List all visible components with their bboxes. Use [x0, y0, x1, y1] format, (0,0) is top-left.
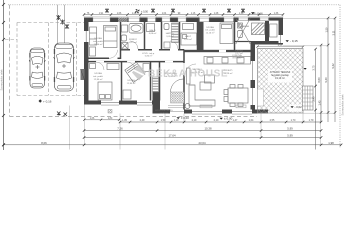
vent mark below window A [108, 110, 112, 114]
entry door arc [171, 79, 184, 92]
room1 bottom wall [89, 57, 110, 59]
exterior wall right of bump-out [279, 18, 284, 45]
svg-text:SZOBA: SZOBA [94, 72, 102, 75]
right extension horizontals [283, 18, 335, 113]
terrace door pad [258, 89, 264, 106]
left property dimension line [3, 0, 5, 150]
svg-text:1,50: 1,50 [325, 27, 329, 33]
living room right wall [251, 44, 256, 114]
entry door gap in bottom wall [168, 106, 186, 114]
svg-text:2,55: 2,55 [270, 119, 275, 122]
windows bottom wall right section [192, 110, 252, 114]
svg-text:tett. padló: tett. padló [205, 29, 215, 32]
svg-text:2,10: 2,10 [214, 119, 219, 122]
svg-text:4,66 m²: 4,66 m² [149, 32, 157, 35]
svg-text:1,05: 1,05 [122, 119, 127, 122]
svg-text:9,40: 9,40 [324, 77, 328, 83]
svg-text:1,79: 1,79 [309, 119, 314, 122]
door gaps in corridor walls [96, 49, 185, 75]
svg-text:1,36: 1,36 [274, 13, 279, 15]
bath washer [122, 43, 129, 50]
exterior wall left [84, 18, 89, 105]
terrace garden steps [303, 86, 314, 110]
svg-text:12,85 m²: 12,85 m² [94, 78, 103, 81]
radiators living [200, 105, 246, 108]
dim line B [84, 130, 321, 132]
svg-text:10,38: 10,38 [205, 127, 212, 131]
bedroom A bed vertical [98, 82, 112, 100]
wc room fixtures [164, 24, 169, 30]
bath tub [129, 24, 143, 34]
bath/haló wall [144, 22, 146, 49]
haló/wc wall [161, 22, 163, 49]
svg-text:1,47: 1,47 [233, 119, 238, 122]
svg-text:2,19: 2,19 [192, 119, 197, 122]
bedroom B desk [123, 90, 131, 99]
terrace label [268, 70, 292, 83]
living top wall band [184, 50, 251, 52]
svg-text:ÉTKEZŐ: ÉTKEZŐ [233, 57, 242, 60]
shrub marks above top wall [105, 8, 245, 13]
svg-text:1,28: 1,28 [132, 13, 137, 15]
svg-text:8,06: 8,06 [41, 141, 47, 145]
+0.16 level marker in yard [39, 99, 52, 103]
corridor bottom wall [89, 61, 185, 63]
svg-text:rendszer: rendszer [160, 111, 169, 114]
svg-text:± 0,00: ± 0,00 [224, 117, 233, 121]
entry connector wall [153, 92, 161, 114]
exterior wall top [84, 18, 283, 23]
door swing arcs [96, 41, 196, 75]
bottom wall left section [84, 101, 157, 105]
svg-text:- 0,02: - 0,02 [295, 105, 303, 109]
eaves line above top wall [84, 16, 283, 18]
svg-text:3,05 m²: 3,05 m² [166, 35, 174, 38]
terrace top dim line [258, 46, 304, 48]
svg-text:1,66: 1,66 [90, 118, 95, 120]
svg-text:tett. padló: tett. padló [93, 40, 103, 43]
svg-text:KÖZL. tett.p.: KÖZL. tett.p. [142, 52, 155, 55]
dark shaft attic room [198, 22, 204, 50]
svg-text:1,70: 1,70 [291, 119, 296, 122]
room1 wardrobe [90, 27, 97, 45]
svg-text:3,73: 3,73 [312, 65, 316, 71]
ladder closet room3 [172, 23, 179, 43]
car 2 top view [54, 43, 75, 91]
kitchen counter [204, 57, 251, 65]
svg-text:2,49: 2,49 [140, 119, 145, 122]
svg-text:7,26: 7,26 [117, 127, 123, 131]
bump-out fixtures [238, 23, 243, 28]
bump-out bottom wall [251, 41, 284, 45]
svg-text:23,64: 23,64 [199, 141, 206, 145]
bump-out interior thick wall [265, 21, 269, 41]
wall room1/bath [120, 22, 122, 59]
svg-text:± 0,00: ± 0,00 [181, 116, 189, 120]
svg-text:6,15 m²: 6,15 m² [129, 41, 137, 44]
svg-text:KAMRA: KAMRA [235, 50, 243, 53]
windows top wall [92, 18, 270, 23]
svg-text:HÁLÓ: HÁLÓ [185, 35, 191, 38]
svg-text:1,98: 1,98 [328, 141, 334, 145]
bedroom divider walls [121, 62, 123, 101]
living: tv bench [187, 68, 191, 84]
terrace doors in living right wall [251, 61, 256, 80]
svg-text:Szomszédos telek: Szomszédos telek [341, 94, 345, 116]
car 1 top view [29, 48, 45, 88]
top room wardrobe [183, 24, 194, 30]
shrubs near bottom dashed line [57, 112, 67, 117]
entry/corridor wall [159, 62, 161, 101]
room/attic-room wall [197, 22, 199, 50]
svg-text:- 0,15: - 0,15 [290, 39, 298, 43]
svg-text:+ 0,16: + 0,16 [43, 100, 52, 104]
bath wc [122, 35, 127, 41]
watermark [132, 65, 228, 81]
attic-room/bump-out wall [234, 22, 236, 50]
svg-text:BÉK&A HOUSE: BÉK&A HOUSE [148, 67, 228, 80]
±0.00 level marker top [135, 9, 148, 13]
svg-text:6,60: 6,60 [317, 77, 321, 83]
svg-text:1,80: 1,80 [108, 118, 113, 120]
svg-text:1,28: 1,28 [214, 13, 219, 15]
windows bottom wall left section [101, 101, 152, 105]
extension verticals [70, 105, 321, 150]
svg-text:1,16: 1,16 [191, 13, 196, 15]
bedroom A nightstand [90, 64, 96, 69]
svg-text:6,05 m²: 6,05 m² [184, 38, 192, 41]
svg-text:1,64: 1,64 [249, 119, 254, 122]
room1 bed [104, 26, 118, 48]
dining table [228, 88, 248, 103]
svg-text:tett. padló: tett. padló [93, 75, 103, 78]
svg-text:2,40: 2,40 [312, 96, 316, 102]
site boundary dashed left [9, 5, 11, 117]
flag marker above steps [304, 68, 307, 70]
svg-text:HÁZT. h.: HÁZT. h. [166, 32, 175, 35]
svg-text:SZOBA: SZOBA [127, 79, 135, 82]
window left wall [84, 31, 89, 42]
svg-text:5,80 m²: 5,80 m² [145, 55, 153, 58]
bedroom B diagonal bed [125, 62, 145, 82]
room1 desk [90, 47, 96, 56]
wc/room wall [179, 22, 181, 49]
svg-text:1,19: 1,19 [174, 119, 179, 122]
shrub symbols along walk [57, 15, 70, 29]
dim line C [84, 137, 321, 139]
svg-text:19,19 m²: 19,19 m² [275, 77, 285, 80]
svg-text:± 0,00: ± 0,00 [141, 11, 149, 14]
svg-text:- 0,16: - 0,16 [256, 11, 264, 15]
-0.15 marker right of bump-out [286, 39, 299, 43]
svg-text:SZOBA: SZOBA [206, 26, 214, 29]
svg-text:1,91: 1,91 [99, 13, 104, 15]
attic room cabinet + stairs diagonals [220, 23, 233, 44]
bath sink [122, 25, 128, 32]
entry mat [171, 92, 185, 103]
svg-text:1,66: 1,66 [117, 13, 122, 15]
svg-text:4,55: 4,55 [278, 45, 283, 47]
svg-text:1,16: 1,16 [239, 13, 244, 15]
svg-text:5,99: 5,99 [287, 127, 293, 131]
svg-text:5,99: 5,99 [287, 134, 293, 138]
bump-out bottom thin wall [235, 41, 251, 43]
svg-text:KAMRA: KAMRA [241, 25, 249, 28]
window right bump-out wall [279, 35, 284, 43]
svg-text:12,85 m²: 12,85 m² [127, 82, 136, 85]
site boundary dotted right [339, 5, 341, 148]
window sills [101, 105, 252, 115]
svg-text:10,96 m²: 10,96 m² [94, 43, 103, 46]
svg-text:HÁLÓ: HÁLÓ [150, 29, 156, 32]
svg-text:9,42: 9,42 [331, 63, 335, 69]
chimney block on left wall [81, 69, 85, 80]
closet hatched block hall [153, 77, 159, 92]
site boundary dotted top [8, 4, 340, 6]
parking bay dashed outline [5, 23, 84, 96]
site dashed line bottom of yard [10, 116, 258, 118]
svg-text:1,50: 1,50 [161, 119, 166, 122]
dim line D full width [4, 144, 342, 146]
walkway path lines [57, 5, 59, 44]
svg-text:1,04: 1,04 [162, 13, 167, 15]
plant corner [185, 104, 190, 109]
corridor top wall [121, 49, 185, 51]
svg-text:SZOBA: SZOBA [94, 37, 102, 40]
left section window dim row [84, 119, 120, 121]
living corner sofa [189, 85, 215, 106]
svg-text:17,64: 17,64 [169, 134, 176, 138]
±0.00 bottom markers [177, 105, 303, 121]
hall/living wall [183, 50, 185, 110]
haló bed small [147, 24, 155, 32]
kitchen island [205, 75, 215, 83]
svg-text:3,11: 3,11 [332, 30, 336, 35]
svg-text:Szomszédos telek: Szomszédos telek [0, 69, 4, 91]
svg-text:2,17 m²: 2,17 m² [235, 52, 243, 55]
flag near bottom shrubs [58, 114, 61, 116]
bottom wall right section [157, 110, 268, 114]
room labels tiny text [93, 25, 249, 114]
left dim ticks [2, 3, 5, 146]
svg-text:FÜRDŐ: FÜRDŐ [129, 38, 137, 41]
dim line A [120, 121, 321, 123]
svg-text:1,43: 1,43 [318, 100, 322, 106]
svg-text:12,16 m²: 12,16 m² [206, 31, 215, 34]
